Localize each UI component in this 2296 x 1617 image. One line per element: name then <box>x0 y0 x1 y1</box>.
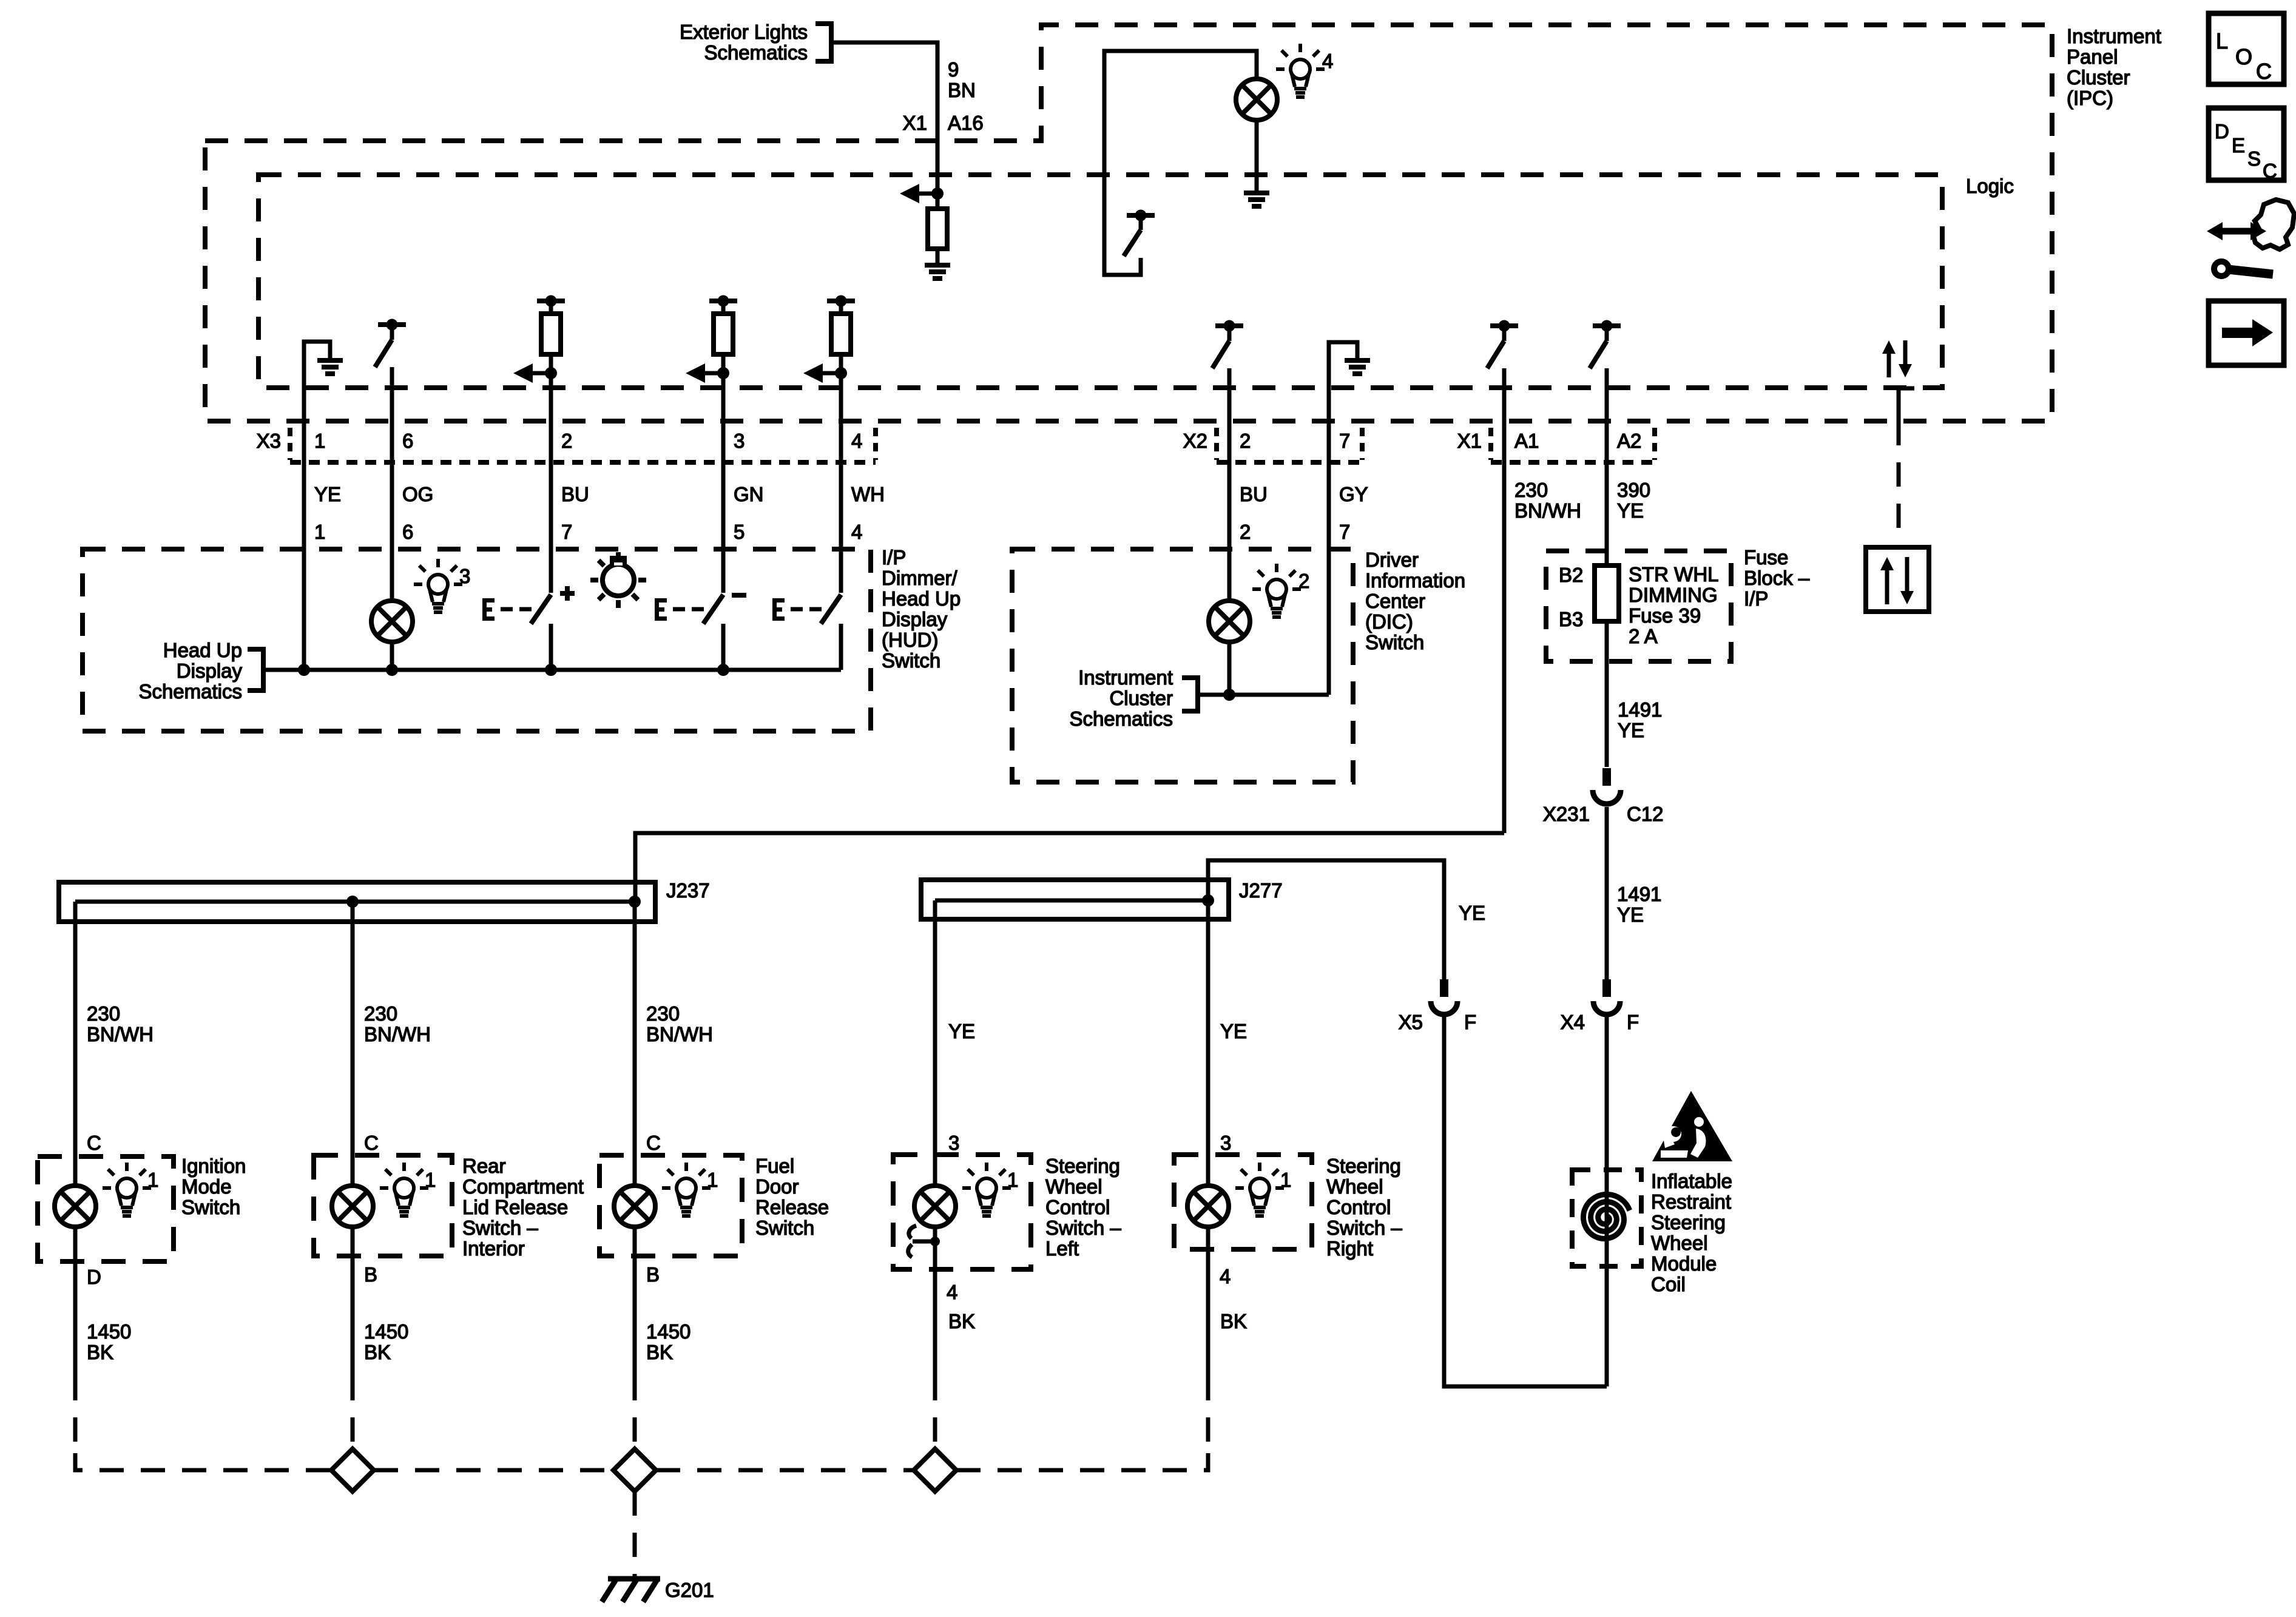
wire x=908 to HUD switch <box>549 373 553 593</box>
svg-text:YE: YE <box>1617 499 1644 522</box>
wire swcl lower dashed <box>933 1376 937 1453</box>
wire swcl drop <box>933 900 937 1155</box>
resistor (IPC pull-up) <box>928 209 947 249</box>
SWC-L hook contact <box>930 1237 940 1246</box>
wire ignition lower dashed <box>73 1376 78 1453</box>
switch (IPC A2) <box>1593 323 1621 328</box>
svg-text:STR WHL: STR WHL <box>1629 563 1719 586</box>
svg-text:1: 1 <box>314 430 325 452</box>
svg-text:1450: 1450 <box>646 1320 690 1343</box>
svg-text:J277: J277 <box>1239 879 1283 902</box>
svg-text:Switch: Switch <box>181 1196 240 1218</box>
svg-text:Fuse 39: Fuse 39 <box>1629 604 1701 627</box>
svg-text:F: F <box>1627 1011 1639 1033</box>
coil dashed box <box>1572 1170 1641 1266</box>
svg-text:1: 1 <box>1007 1169 1018 1191</box>
switch (DIC pin2) <box>1215 323 1243 328</box>
connector X2 band <box>1214 428 1219 460</box>
wire A1 to J237 riser <box>635 833 1504 902</box>
svg-text:6: 6 <box>402 430 413 452</box>
Rear Compartment Lid Release Switch lamp <box>332 1186 373 1227</box>
svg-text:1: 1 <box>314 521 325 543</box>
inline connector X231 C12 <box>1602 768 1611 786</box>
bulb icon 2 <box>1267 579 1286 599</box>
wire rear lower solid <box>351 1256 355 1376</box>
connector X1 band <box>1488 428 1493 460</box>
svg-text:YE: YE <box>1220 1020 1247 1042</box>
svg-text:1: 1 <box>707 1169 718 1191</box>
I/P Dimmer HUD Switch dashed box <box>83 549 871 731</box>
inline connector X5 F <box>1440 979 1448 997</box>
svg-text:C: C <box>646 1132 661 1154</box>
Ignition Mode Switch lamp <box>55 1186 96 1227</box>
airbag warning triangle <box>1652 1091 1732 1161</box>
svg-text:4: 4 <box>851 430 862 452</box>
svg-text:Switch –: Switch – <box>1326 1217 1402 1239</box>
ground elbow (DIC pin7 wire) <box>1329 342 1357 695</box>
svg-text:4: 4 <box>851 521 862 543</box>
HUD switch - (GN) <box>655 598 659 621</box>
svg-text:Cluster: Cluster <box>1109 687 1173 709</box>
svg-text:Information: Information <box>1365 569 1465 592</box>
svg-text:Control: Control <box>1326 1196 1391 1218</box>
wire rear lower dashed <box>351 1376 355 1453</box>
junction dot with left arrow <box>931 187 944 200</box>
svg-text:X2: X2 <box>1183 430 1207 452</box>
svg-text:Right: Right <box>1326 1237 1373 1260</box>
svg-text:Switch: Switch <box>1365 631 1424 653</box>
svg-text:B2: B2 <box>1559 564 1583 586</box>
svg-text:F: F <box>1464 1011 1476 1033</box>
svg-text:Interior: Interior <box>462 1237 525 1260</box>
splice diamond swcl <box>914 1449 956 1491</box>
connector X3 band <box>288 428 292 460</box>
wire swcr lower solid <box>1206 1249 1210 1376</box>
svg-text:Coil: Coil <box>1651 1273 1686 1295</box>
svg-text:230: 230 <box>87 1002 120 1025</box>
svg-text:390: 390 <box>1617 479 1650 501</box>
svg-text:O: O <box>2235 44 2252 69</box>
svg-text:D: D <box>2215 120 2229 143</box>
svg-text:1491: 1491 <box>1618 698 1662 721</box>
svg-text:L: L <box>2216 29 2228 53</box>
svg-text:BK: BK <box>948 1310 975 1332</box>
DIC lamp lower wire <box>1227 641 1232 695</box>
inline connector X4 F <box>1602 979 1611 997</box>
svg-text:Door: Door <box>755 1175 799 1198</box>
Steering Wheel Control Switch Left bulb icon <box>977 1178 996 1198</box>
svg-text:6: 6 <box>402 521 413 543</box>
svg-text:Switch: Switch <box>882 649 940 672</box>
svg-text:4: 4 <box>1322 50 1333 72</box>
svg-text:GN: GN <box>734 483 764 505</box>
svg-text:Switch: Switch <box>755 1217 814 1239</box>
svg-text:YE: YE <box>1617 903 1644 926</box>
svg-text:OG: OG <box>402 483 433 505</box>
lamp3 lower wire <box>390 641 394 670</box>
svg-text:5: 5 <box>734 521 745 543</box>
svg-text:C12: C12 <box>1627 803 1664 825</box>
svg-text:Rear: Rear <box>462 1155 506 1177</box>
svg-text:(HUD): (HUD) <box>882 629 938 651</box>
svg-text:Schematics: Schematics <box>1069 707 1173 730</box>
Steering Wheel Control Switch Right dashed box <box>1174 1155 1312 1249</box>
svg-text:Switch –: Switch – <box>462 1217 538 1239</box>
svg-text:BK: BK <box>1220 1310 1247 1332</box>
Rear Compartment Lid Release Switch bulb icon <box>394 1178 414 1198</box>
svg-text:BK: BK <box>87 1341 113 1363</box>
wire X4 down through coil <box>1605 1013 1609 1386</box>
svg-text:3: 3 <box>459 565 470 587</box>
svg-text:B: B <box>646 1263 660 1286</box>
svg-text:Steering: Steering <box>1651 1211 1726 1234</box>
lamp symbol 3 (OG wire) <box>371 601 413 642</box>
svg-text:Instrument: Instrument <box>2067 25 2161 47</box>
svg-text:1450: 1450 <box>364 1320 408 1343</box>
svg-text:DIMMING: DIMMING <box>1629 584 1718 606</box>
legend LOC box <box>2209 13 2284 84</box>
updown arrows in Logic <box>1887 353 1891 377</box>
svg-text:230: 230 <box>646 1002 680 1025</box>
HUD bus wire <box>263 668 841 672</box>
svg-text:3: 3 <box>948 1132 959 1154</box>
splice diamond fuel <box>613 1449 656 1491</box>
svg-text:C: C <box>2256 59 2272 84</box>
splice diamond rear <box>331 1449 374 1491</box>
svg-text:BN/WH: BN/WH <box>364 1023 431 1045</box>
svg-text:3: 3 <box>1220 1132 1231 1154</box>
svg-text:Inflatable: Inflatable <box>1651 1170 1732 1192</box>
svg-text:Fuel: Fuel <box>755 1155 794 1177</box>
svg-text:7: 7 <box>1339 430 1350 452</box>
Instrument Panel Cluster (IPC) dashed box <box>205 25 2052 421</box>
svg-text:Logic: Logic <box>1966 175 2014 197</box>
svg-text:J237: J237 <box>666 879 710 902</box>
Logic dashed box <box>258 175 1942 388</box>
bracket Instrument Cluster Schematics <box>1182 678 1198 711</box>
svg-text:G201: G201 <box>665 1579 714 1601</box>
resistor at x=1386 <box>831 314 851 354</box>
svg-text:Switch –: Switch – <box>1045 1217 1121 1239</box>
Fuse Block dashed box <box>1546 551 1731 661</box>
lamp symbol 4 <box>1236 79 1277 120</box>
svg-text:S: S <box>2247 147 2261 170</box>
svg-text:X3: X3 <box>257 430 281 452</box>
legend hand double-arrow icon <box>2221 228 2252 235</box>
junction arrow at x=908 <box>545 367 557 379</box>
wire swcr lower dashed <box>1206 1376 1210 1453</box>
svg-text:X4: X4 <box>1561 1011 1585 1033</box>
svg-text:(IPC): (IPC) <box>2067 87 2113 109</box>
Steering Wheel Control Switch Left dashed box <box>893 1155 1031 1269</box>
svg-text:Cluster: Cluster <box>2067 66 2130 89</box>
svg-text:C: C <box>364 1132 379 1154</box>
legend arrow box <box>2209 301 2284 365</box>
svg-text:D: D <box>87 1266 101 1288</box>
HUD switch (WH) <box>772 598 777 621</box>
svg-text:Schematics: Schematics <box>704 41 808 64</box>
svg-text:1: 1 <box>425 1169 436 1191</box>
wire ignition drop <box>73 902 78 1156</box>
svg-text:GY: GY <box>1339 483 1368 505</box>
svg-text:Head Up: Head Up <box>882 587 961 610</box>
svg-text:Driver: Driver <box>1365 549 1419 571</box>
splice pack J277 box <box>921 880 1229 919</box>
svg-text:C: C <box>87 1132 101 1154</box>
legend DESC box <box>2209 108 2284 180</box>
svg-text:1450: 1450 <box>87 1320 131 1343</box>
svg-text:7: 7 <box>561 521 572 543</box>
svg-text:BN/WH: BN/WH <box>87 1023 154 1045</box>
wire J277 to X5 riser <box>1208 860 1444 979</box>
ground (lamp 4) <box>1244 191 1269 195</box>
ground G201 rake <box>608 1576 660 1582</box>
switch (HUD pin6) <box>378 322 406 327</box>
svg-text:BN/WH: BN/WH <box>1514 499 1581 522</box>
contact bar (resistor at x=1192) <box>709 299 737 303</box>
svg-text:Dimmer/: Dimmer/ <box>882 567 957 589</box>
svg-text:2: 2 <box>1240 430 1251 452</box>
svg-text:Control: Control <box>1045 1196 1110 1218</box>
DIC join wire <box>1198 693 1329 697</box>
wire X5 down <box>1444 1013 1607 1386</box>
svg-text:BN: BN <box>948 79 976 101</box>
svg-text:1491: 1491 <box>1617 883 1661 905</box>
contact bar (resistor at x=908) <box>537 299 565 303</box>
svg-text:230: 230 <box>364 1002 397 1025</box>
ground (IPC internal) <box>925 263 950 268</box>
J237 bus <box>75 900 635 904</box>
svg-text:4: 4 <box>947 1281 957 1303</box>
wire fuel lower dashed <box>633 1376 637 1453</box>
svg-text:Display: Display <box>177 660 243 682</box>
serial data box with arrows <box>1866 547 1929 612</box>
svg-text:YE: YE <box>1618 719 1644 741</box>
fuse 39 element <box>1595 565 1619 621</box>
wire ignition lower solid <box>73 1261 78 1376</box>
Fuel Door Release Switch lamp <box>614 1186 655 1227</box>
svg-text:Steering: Steering <box>1045 1155 1120 1177</box>
svg-text:BK: BK <box>364 1341 391 1363</box>
svg-text:Head Up: Head Up <box>163 639 242 661</box>
svg-text:BN/WH: BN/WH <box>646 1023 713 1045</box>
splice pack J237 box <box>59 882 655 922</box>
ground bus dashed <box>75 1453 331 1470</box>
wire x=1386 to HUD switch <box>839 373 843 593</box>
lamp symbol 2 (DIC) <box>1209 601 1250 642</box>
svg-text:2: 2 <box>1240 521 1251 543</box>
svg-text:Wheel: Wheel <box>1045 1175 1102 1198</box>
resistor at x=1192 <box>714 314 733 354</box>
svg-text:YE: YE <box>1459 902 1485 924</box>
Steering Wheel Control Switch Left lamp <box>914 1186 956 1227</box>
wire fuel drop <box>633 902 637 1155</box>
svg-text:B: B <box>364 1263 377 1286</box>
svg-text:C: C <box>2263 160 2277 182</box>
svg-text:Compartment: Compartment <box>462 1175 584 1198</box>
svg-text:BU: BU <box>561 483 589 505</box>
Steering Wheel Control Switch Right bulb icon <box>1250 1178 1269 1198</box>
svg-text:Center: Center <box>1365 590 1425 612</box>
junction dots on HUD bus <box>298 664 310 676</box>
svg-text:A2: A2 <box>1617 430 1641 452</box>
Fuel Door Release Switch dashed box <box>599 1155 742 1256</box>
svg-text:A1: A1 <box>1514 430 1539 452</box>
Fuel Door Release Switch bulb icon <box>677 1178 696 1198</box>
svg-text:BK: BK <box>646 1341 673 1363</box>
off-page bracket Exterior Lights <box>815 24 831 61</box>
svg-text:YE: YE <box>314 483 341 505</box>
wire lamp-4 loop <box>1104 51 1257 275</box>
wire from Exterior Lights to X1-A16 <box>831 42 937 192</box>
svg-text:X1: X1 <box>903 112 927 134</box>
Rear Compartment Lid Release Switch dashed box <box>314 1155 452 1256</box>
svg-text:4: 4 <box>1220 1265 1231 1288</box>
wire A2 fuse to X231 <box>1605 661 1609 767</box>
svg-text:Release: Release <box>755 1196 829 1218</box>
Steering Wheel Control Switch Right lamp <box>1187 1186 1229 1227</box>
svg-text:Instrument: Instrument <box>1078 666 1173 689</box>
svg-text:230: 230 <box>1514 479 1548 501</box>
svg-text:Wheel: Wheel <box>1326 1175 1383 1198</box>
HUD switch + (BU) <box>482 598 487 621</box>
svg-text:E: E <box>2232 134 2245 157</box>
wire X231 to X4 <box>1605 807 1609 979</box>
svg-text:X231: X231 <box>1543 803 1590 825</box>
ground elbow (HUD pin1 wire) <box>304 342 330 670</box>
svg-text:Display: Display <box>882 608 948 630</box>
wire x=1192 to HUD switch <box>721 373 726 593</box>
svg-text:Panel: Panel <box>2067 46 2118 68</box>
resistor at x=908 <box>541 314 561 354</box>
svg-text:1: 1 <box>1280 1169 1291 1191</box>
Ignition Mode Switch dashed box <box>38 1156 174 1261</box>
svg-text:Mode: Mode <box>181 1175 232 1198</box>
wire to G201 dashed <box>633 1491 637 1576</box>
svg-text:X1: X1 <box>1457 430 1482 452</box>
svg-text:2 A: 2 A <box>1629 625 1658 647</box>
svg-text:A16: A16 <box>948 112 984 134</box>
wire swcl lower solid <box>933 1269 937 1376</box>
bulb icon 3 <box>428 575 448 594</box>
brightness sun icon <box>603 564 634 596</box>
svg-text:Schematics: Schematics <box>138 680 242 703</box>
Ignition Mode Switch bulb icon <box>117 1178 137 1198</box>
wire lamp-4 to ground <box>1255 120 1259 192</box>
wire Logic to serial-data box <box>1899 388 1914 421</box>
DIC switch dashed box <box>1012 549 1353 782</box>
J277 bus <box>935 899 1208 903</box>
bracket Head Up Display Schematics <box>248 649 263 690</box>
svg-text:7: 7 <box>1339 521 1350 543</box>
switch (IPC A1) <box>1490 323 1518 328</box>
svg-text:Restraint: Restraint <box>1651 1190 1731 1213</box>
svg-text:Exterior Lights: Exterior Lights <box>680 21 808 43</box>
svg-text:Ignition: Ignition <box>181 1155 246 1177</box>
svg-text:Lid Release: Lid Release <box>462 1196 568 1218</box>
svg-text:Steering: Steering <box>1326 1155 1401 1177</box>
bulb icon 4 <box>1291 59 1310 79</box>
svg-text:BU: BU <box>1240 483 1268 505</box>
svg-text:X5: X5 <box>1399 1011 1423 1033</box>
svg-text:9: 9 <box>948 58 959 81</box>
svg-text:Fuse: Fuse <box>1744 546 1788 569</box>
svg-text:I/P: I/P <box>1744 587 1768 610</box>
svg-text:Wheel: Wheel <box>1651 1232 1708 1254</box>
svg-text:(DIC): (DIC) <box>1365 610 1413 633</box>
svg-text:YE: YE <box>948 1020 975 1042</box>
svg-text:Module: Module <box>1651 1252 1717 1275</box>
switch (IPC internal) <box>1127 213 1155 218</box>
junction arrow at x=1386 <box>835 367 847 379</box>
svg-text:Left: Left <box>1045 1237 1079 1260</box>
svg-text:2: 2 <box>561 430 572 452</box>
wire fuel lower solid <box>633 1256 637 1376</box>
wire rear drop <box>351 902 355 1155</box>
contact bar (resistor at x=1386) <box>827 299 855 303</box>
svg-text:WH: WH <box>851 483 885 505</box>
wire swcr drop <box>1206 900 1210 1155</box>
svg-text:Block –: Block – <box>1744 567 1810 589</box>
junction arrow at x=1192 <box>717 367 729 379</box>
svg-text:B3: B3 <box>1559 608 1583 630</box>
clockspring coil <box>1584 1195 1630 1239</box>
svg-text:1: 1 <box>147 1169 158 1191</box>
svg-text:I/P: I/P <box>882 546 906 569</box>
svg-text:2: 2 <box>1298 570 1309 592</box>
svg-text:3: 3 <box>734 430 745 452</box>
